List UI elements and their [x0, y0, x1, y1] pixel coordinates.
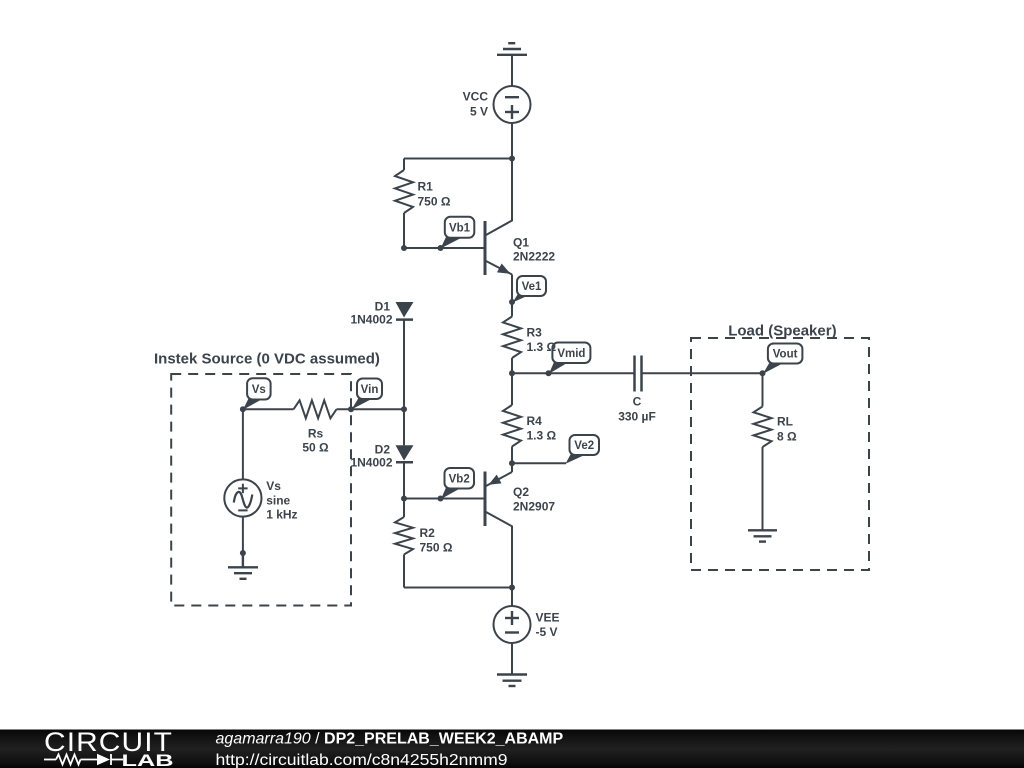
wire top rail	[404, 158, 512, 160]
node junction bottom rail	[509, 585, 515, 591]
ground (Instek source)	[228, 553, 258, 579]
flag Ve2	[566, 435, 600, 464]
node Vb2 dot	[438, 496, 444, 502]
node junction D2/R2/base	[401, 496, 407, 502]
flag Vmid	[549, 343, 590, 374]
wire Q1 base	[404, 247, 485, 249]
label R3 1.3	[527, 326, 557, 355]
wire to VEE	[511, 588, 513, 607]
label C 330uF	[618, 395, 656, 424]
svg-text:Vin: Vin	[361, 384, 379, 396]
node dot above source ground	[240, 550, 246, 556]
wire Q2 base	[404, 498, 485, 500]
svg-text:50 Ω: 50 Ω	[302, 440, 329, 454]
svg-text:Vs: Vs	[266, 479, 281, 493]
svg-text:Vmid: Vmid	[557, 348, 585, 360]
svg-text:8 Ω: 8 Ω	[777, 429, 797, 443]
flag Vb2	[441, 468, 474, 499]
diode D2	[396, 409, 414, 498]
wire VEE to ground	[511, 643, 513, 675]
svg-text:Rs: Rs	[308, 427, 324, 441]
resistor R2	[395, 499, 413, 588]
node junction R1/D1/base	[401, 245, 407, 251]
flag Vs	[243, 378, 271, 410]
label Q2 2N2907	[513, 485, 555, 513]
svg-text:Vb2: Vb2	[449, 473, 470, 485]
wire ground to VCC	[511, 55, 513, 86]
node Vin flag dot	[348, 406, 354, 412]
label R1 750	[418, 180, 451, 209]
svg-text:C: C	[633, 395, 642, 409]
ground (top, at VCC)	[497, 43, 527, 55]
svg-text:LAB: LAB	[122, 752, 174, 768]
svg-text:VEE: VEE	[536, 610, 560, 624]
wire bottom rail	[404, 587, 512, 589]
svg-text:D1: D1	[375, 300, 391, 314]
svg-text:D2: D2	[375, 442, 391, 456]
flag Vout	[763, 344, 802, 374]
label D1 1N4002	[350, 300, 392, 327]
node Vb1 dot	[438, 245, 444, 251]
voltage source Vs sine	[224, 409, 261, 553]
label R2 750	[420, 526, 453, 555]
svg-text:1N4002: 1N4002	[350, 455, 392, 469]
flag Vb1	[441, 217, 475, 249]
label Q1 2N2222	[513, 235, 555, 263]
svg-text:http://circuitlab.com/c8n4255h: http://circuitlab.com/c8n4255h2nmm9	[216, 752, 508, 768]
svg-text:Ve2: Ve2	[574, 440, 594, 452]
svg-text:2N2222: 2N2222	[513, 250, 555, 264]
resistor RL	[754, 373, 772, 530]
flag Vin	[352, 379, 383, 410]
ground (load)	[748, 530, 777, 541]
svg-text:750 Ω: 750 Ω	[418, 195, 451, 209]
svg-text:sine: sine	[266, 493, 290, 507]
svg-text:R1: R1	[418, 180, 434, 194]
wire Vs to Rs	[243, 408, 294, 410]
node Vs dot	[240, 406, 246, 412]
CircuitLab logo	[44, 727, 174, 768]
transistor Q2	[485, 463, 512, 587]
svg-text:Vs: Vs	[252, 384, 266, 396]
svg-text:2N2907: 2N2907	[513, 500, 555, 514]
svg-text:750 Ω: 750 Ω	[420, 541, 453, 555]
resistor R3	[503, 302, 521, 373]
svg-text:Instek Source (0 VDC assumed): Instek Source (0 VDC assumed)	[154, 350, 380, 367]
svg-text:Q2: Q2	[513, 485, 529, 499]
resistor R1	[395, 159, 413, 249]
flag Ve1	[513, 276, 547, 303]
svg-text:R3: R3	[527, 326, 543, 340]
wire Ve2 stub	[512, 462, 566, 464]
label RL 8	[777, 415, 797, 444]
svg-text:1.3 Ω: 1.3 Ω	[527, 340, 557, 354]
resistor R4	[503, 373, 521, 463]
label Vs sine 1kHz	[266, 479, 297, 521]
footer bar	[0, 730, 1024, 768]
voltage source VCC	[494, 86, 531, 123]
node Ve1 dot	[509, 299, 515, 305]
label VCC 5 V	[463, 90, 489, 119]
node junction Vmid	[509, 370, 515, 376]
svg-text:1 kHz: 1 kHz	[266, 507, 297, 521]
svg-text:RL: RL	[777, 415, 793, 429]
svg-text:agamarra190 / DP2_PRELAB_WEEK2: agamarra190 / DP2_PRELAB_WEEK2_ABAMP	[216, 731, 564, 748]
wire VCC to top rail	[511, 123, 513, 159]
diode D1	[396, 302, 414, 320]
svg-text:VCC: VCC	[463, 90, 489, 104]
capacitor C	[635, 356, 642, 392]
label R4 1.3	[527, 414, 557, 443]
svg-text:1.3 Ω: 1.3 Ω	[527, 429, 557, 443]
ground (bottom, at VEE)	[497, 675, 527, 687]
node Ve2 dot	[509, 460, 515, 466]
svg-text:R4: R4	[527, 414, 543, 428]
wire D1 to Vin	[403, 320, 405, 410]
svg-text:Load (Speaker): Load (Speaker)	[728, 322, 836, 339]
node junction top rail	[509, 156, 515, 162]
box Instek Source	[171, 374, 351, 606]
wire Vin rail	[337, 408, 405, 410]
node junction Vin	[401, 406, 407, 412]
box Load (Speaker)	[691, 338, 869, 570]
svg-text:1N4002: 1N4002	[350, 313, 392, 327]
svg-text:-5 V: -5 V	[536, 625, 558, 639]
transistor Q1	[485, 159, 512, 303]
svg-text:330 µF: 330 µF	[618, 409, 656, 423]
label Rs 50	[302, 427, 329, 455]
svg-text:Ve1: Ve1	[522, 281, 542, 293]
node Vout dot	[760, 370, 766, 376]
svg-text:5 V: 5 V	[470, 104, 488, 118]
voltage source VEE	[494, 606, 531, 643]
wire Vmid to capacitor	[512, 372, 634, 374]
svg-text:Vb1: Vb1	[449, 223, 471, 235]
node Vmid flag dot	[546, 370, 552, 376]
resistor Rs	[294, 400, 337, 418]
wire capacitor to Vout	[642, 372, 763, 374]
svg-text:R2: R2	[420, 526, 436, 540]
svg-text:Vout: Vout	[773, 349, 798, 361]
svg-text:Q1: Q1	[513, 235, 529, 249]
label D2 1N4002	[350, 442, 392, 469]
label VEE -5V	[536, 610, 560, 638]
